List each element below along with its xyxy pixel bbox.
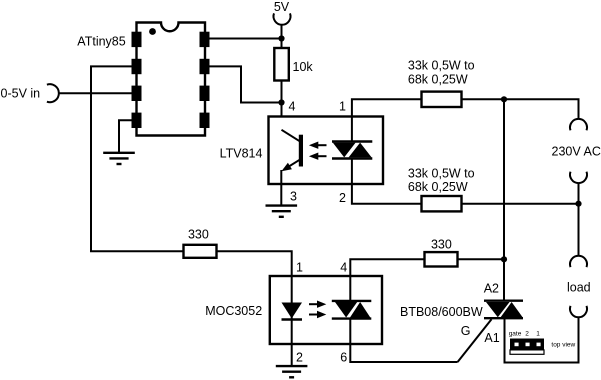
svg-text:3: 3 — [290, 189, 297, 203]
junction 330/A2 — [501, 256, 507, 262]
svg-text:5V: 5V — [274, 0, 290, 14]
svg-text:1: 1 — [536, 331, 540, 338]
resistor 33k upper — [422, 92, 462, 107]
wire node to load upper — [578, 204, 580, 256]
wire 10k to LTV814 pin4 — [281, 81, 283, 130]
IC pin 2 — [132, 59, 142, 74]
terminal load upper — [570, 256, 587, 267]
svg-text:68k 0,25W: 68k 0,25W — [408, 180, 468, 194]
svg-text:4: 4 — [289, 99, 296, 113]
svg-text:BTB08/600BW: BTB08/600BW — [400, 305, 483, 319]
optocoupler U3 MOC3052 box — [270, 276, 382, 344]
triac Q1 BTB08/600BW — [484, 301, 523, 319]
wire IC pin4 to ground — [119, 120, 132, 152]
wire IC pin2 to 330 resistor — [91, 66, 184, 251]
wire A2 vertical — [503, 99, 505, 300]
wire 5V to junction — [281, 25, 283, 48]
svg-text:10k: 10k — [293, 60, 314, 74]
wire 33k lower to 230V AC node — [462, 203, 579, 205]
wire LTV814 pin1 to 33k — [352, 99, 422, 141]
svg-text:gate: gate — [509, 331, 522, 338]
LED pair (LTV814 AC input) — [332, 142, 372, 159]
svg-text:33k 0,5W to: 33k 0,5W to — [408, 167, 475, 181]
svg-text:load: load — [567, 281, 591, 295]
ground (MOC3052 pin2) — [276, 366, 308, 377]
svg-text:1: 1 — [296, 260, 303, 274]
svg-text:MOC3052: MOC3052 — [205, 304, 262, 318]
resistor 330 left — [184, 245, 217, 258]
svg-text:330: 330 — [431, 238, 452, 252]
IC pin 3 — [132, 86, 142, 101]
wire load lower to triac A1 — [505, 317, 579, 362]
terminal 230V AC upper — [570, 119, 587, 130]
svg-text:4: 4 — [340, 260, 347, 274]
IC pin 4 — [132, 113, 142, 128]
wire MOC3052 pin6 to gate — [350, 319, 457, 362]
light arrow (MOC3052 upper) — [309, 301, 326, 308]
terminal 230V AC lower — [570, 172, 587, 183]
svg-text:2: 2 — [525, 331, 529, 338]
junction 230V AC lower node — [575, 201, 581, 207]
svg-text:68k 0,25W: 68k 0,25W — [408, 73, 468, 87]
IC pin 5 — [200, 113, 210, 128]
optocoupler U2 LTV814 box — [269, 117, 384, 185]
svg-text:A1: A1 — [484, 331, 499, 345]
phototransistor (LTV814) — [281, 130, 303, 171]
LED (MOC3052) — [282, 303, 303, 320]
wire 33k upper to 230V AC — [462, 99, 579, 119]
svg-text:330: 330 — [188, 227, 209, 241]
wire LTV814 pin3 to ground — [280, 170, 282, 206]
wire 330 right to A2 net — [458, 258, 505, 260]
svg-text:top view: top view — [551, 341, 575, 348]
wire IC pin7 to node 4 — [210, 66, 282, 102]
junction node 4 — [278, 99, 284, 105]
junction 5V node — [278, 35, 284, 41]
IC pin 8 — [200, 32, 210, 47]
svg-text:G: G — [461, 324, 471, 338]
svg-text:2: 2 — [296, 351, 303, 365]
terminal load lower — [570, 306, 587, 317]
wire 330 left to MOC3052 pin1 — [217, 251, 292, 276]
light arrow (LTV814 lower) — [309, 153, 327, 160]
wire MOC3052 pin4 to 330 — [350, 259, 424, 301]
svg-text:2: 2 — [339, 191, 346, 205]
junction A2 net top — [501, 96, 507, 102]
resistor 33k lower — [422, 196, 462, 211]
wire 0-5V in to IC pin3 — [59, 92, 132, 94]
light arrow (LTV814 upper) — [309, 142, 327, 149]
resistor 330 right — [425, 252, 458, 266]
ground (LTV814 pin3) — [266, 206, 298, 217]
svg-text:0-5V in: 0-5V in — [1, 86, 41, 100]
light arrow (MOC3052 lower) — [309, 311, 326, 318]
terminal 5V — [274, 13, 291, 24]
ground (IC) — [103, 153, 135, 164]
IC pin1 mark dot — [149, 28, 156, 35]
svg-text:A2: A2 — [484, 281, 499, 295]
svg-text:230V AC: 230V AC — [552, 145, 601, 159]
IC pin 7 — [200, 59, 210, 74]
svg-text:LTV814: LTV814 — [220, 146, 263, 160]
IC pin 6 — [200, 86, 210, 101]
wire IC pin8 to 5V node — [210, 38, 282, 40]
wire MOC3052 LED vertical pin1-pin2 — [291, 276, 293, 366]
svg-text:6: 6 — [340, 351, 347, 365]
wire LTV814 pin2 to 33k — [352, 159, 422, 204]
triac symbol (MOC3052 output) — [332, 301, 372, 319]
svg-text:ATtiny85: ATtiny85 — [77, 34, 125, 48]
connector (triac pinout top view) — [510, 339, 544, 355]
IC U1 ATtiny85 body — [137, 23, 206, 136]
wire 230V AC lower to node — [578, 183, 580, 204]
svg-text:1: 1 — [339, 99, 346, 113]
svg-text:33k 0,5W to: 33k 0,5W to — [408, 58, 475, 72]
IC pin 1 — [132, 32, 142, 47]
terminal 0-5V in — [47, 84, 59, 102]
wire gate diagonal — [458, 319, 492, 362]
resistor 10k — [274, 48, 289, 81]
